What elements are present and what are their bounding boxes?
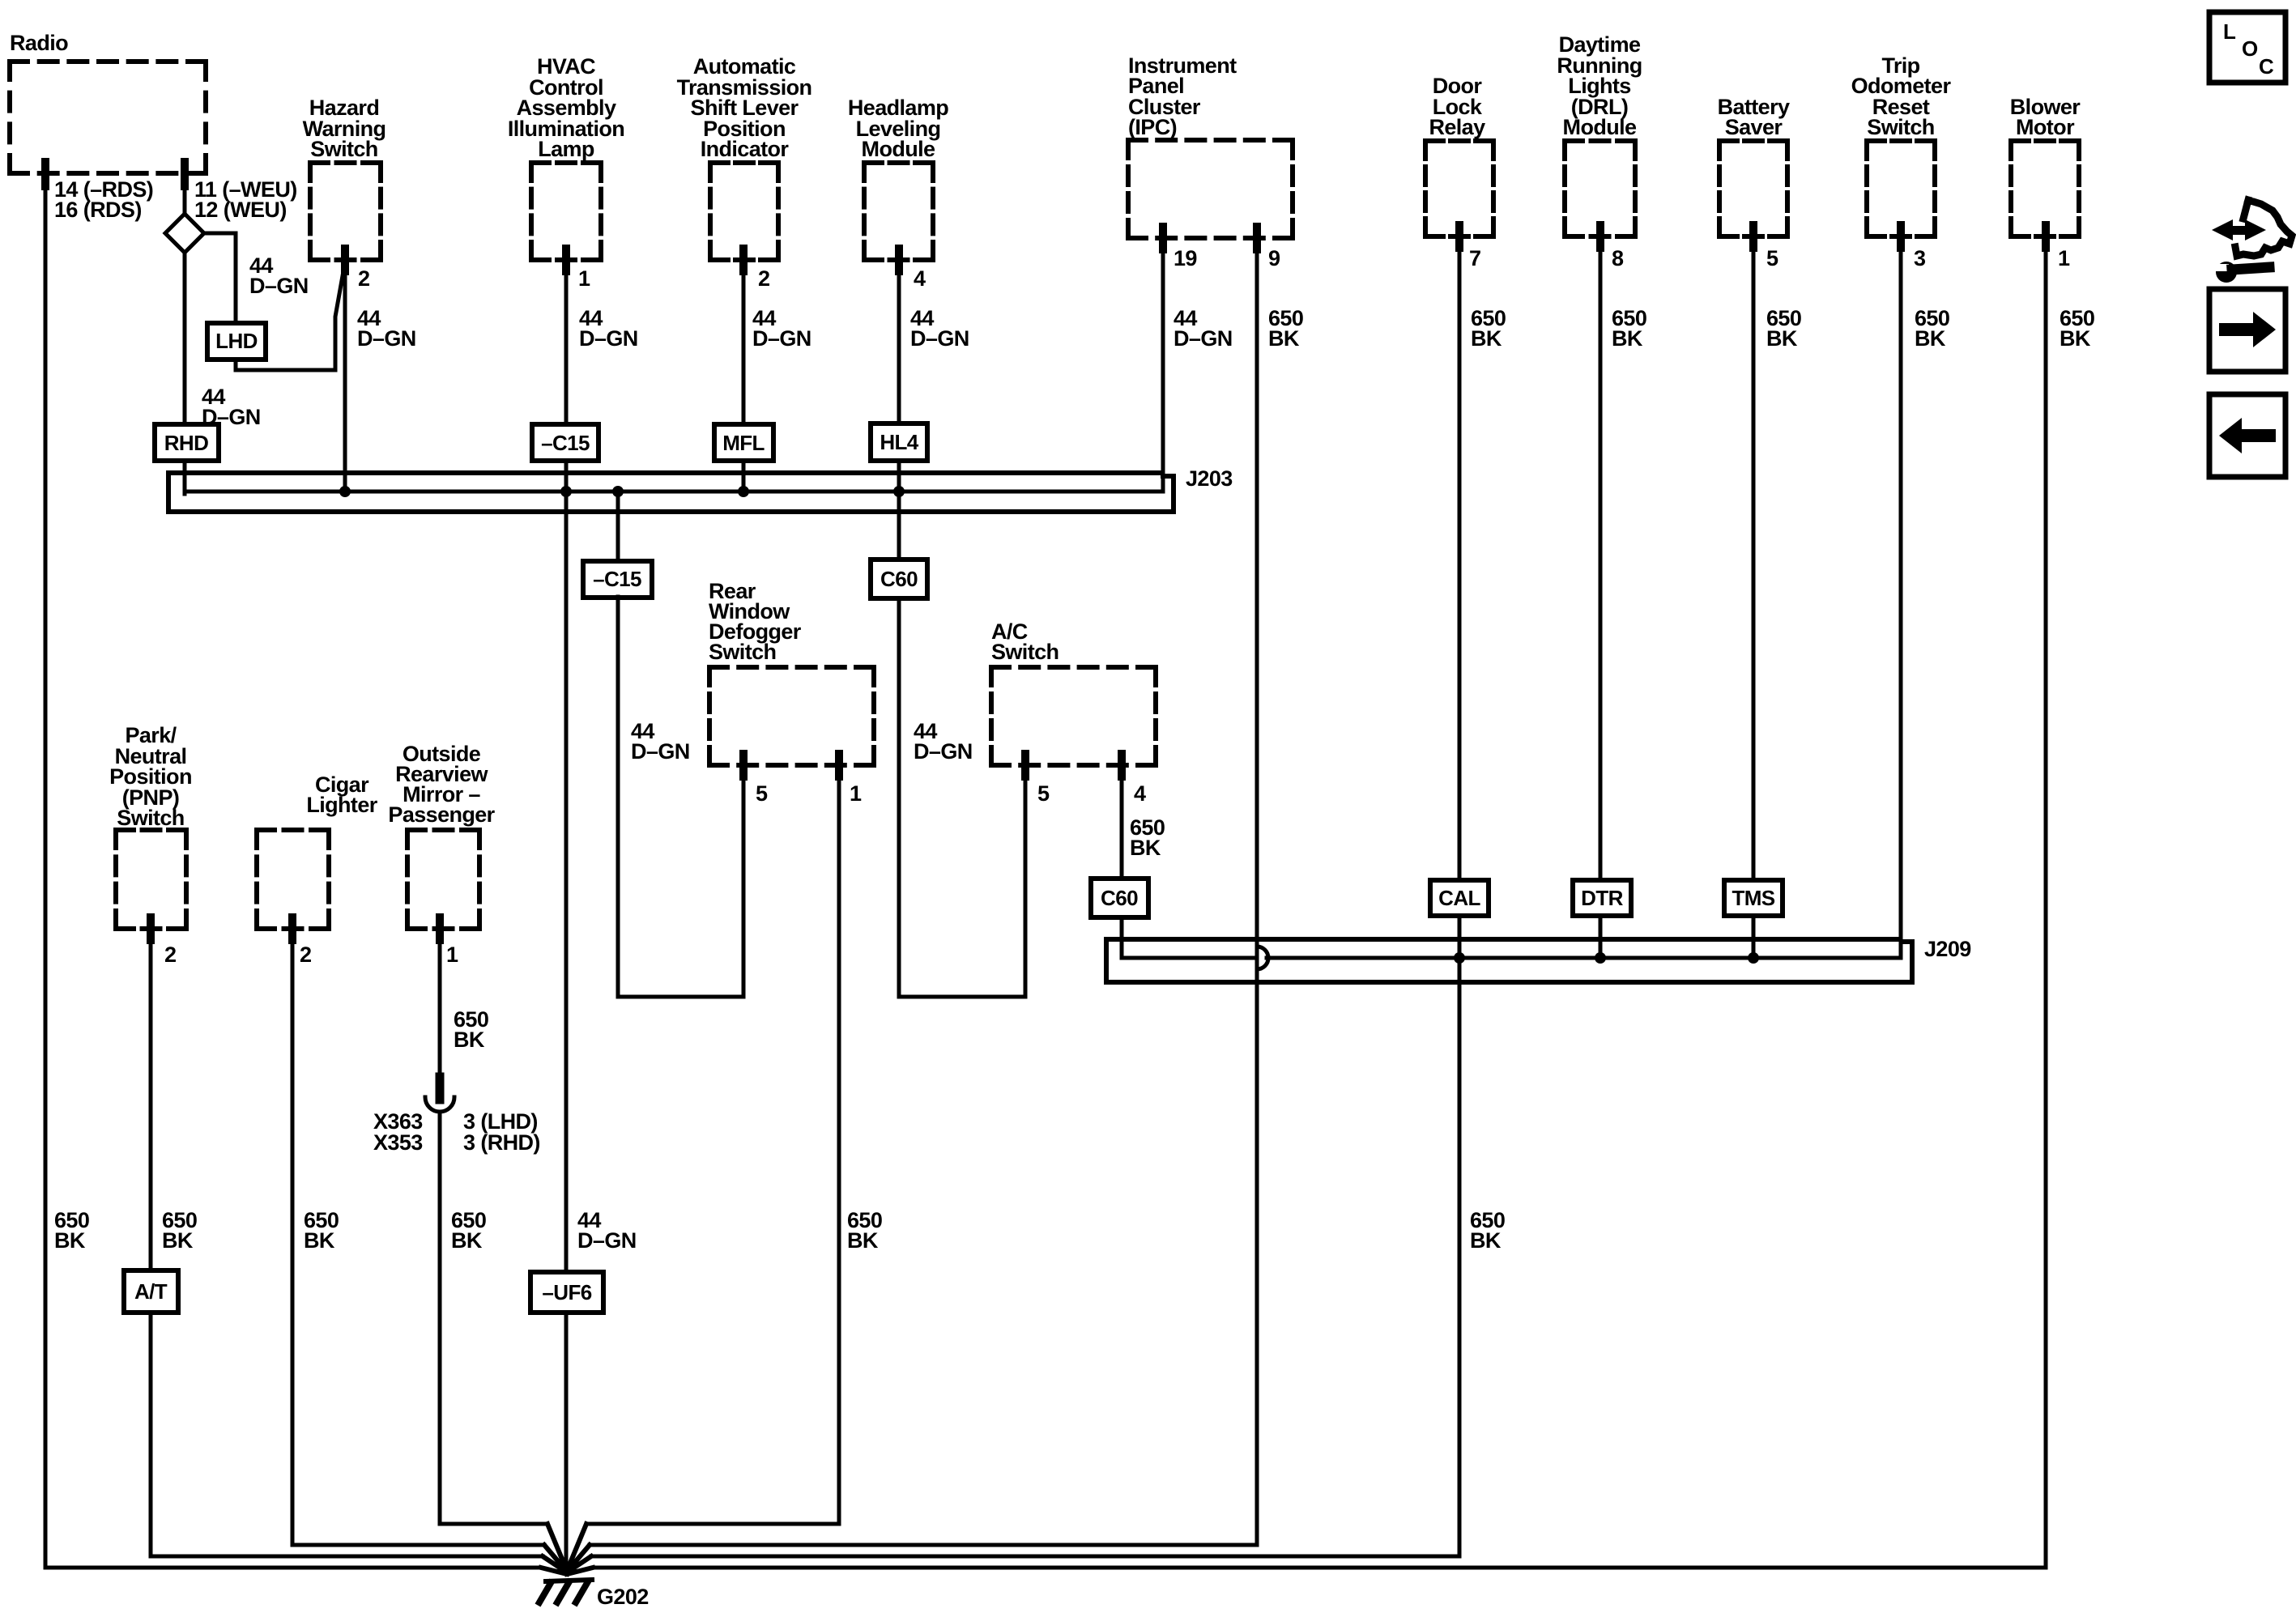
component Trip Odometer Reset Switch (dashed component box)	[1867, 141, 1935, 236]
label 650 BK IPC pin9 wire	[1268, 306, 1303, 351]
label 44 D-GN near diamond	[249, 253, 309, 298]
svg-text:BK: BK	[162, 1228, 194, 1253]
svg-text:BK: BK	[1766, 326, 1798, 351]
wire DRL pin 8 to DTR (650 BK)	[1599, 236, 1603, 880]
in-line connector C60 (C60 lower)	[1091, 879, 1148, 917]
wire headlamp pin 4 to HL4 (44 D-GN)	[897, 260, 901, 423]
svg-text:3 (RHD): 3 (RHD)	[463, 1130, 540, 1155]
mirror pin 1 pin stub	[436, 917, 444, 940]
label 44 D-GN HVAC wire	[579, 306, 638, 351]
shift indicator pin 2 pin stub	[739, 249, 748, 271]
component Radio box (dashed component box)	[10, 62, 206, 173]
wire IPC pin 19 to J203 right end (44 D-GN)	[1161, 238, 1165, 491]
svg-text:Relay: Relay	[1429, 115, 1485, 139]
label 650 BK trip odometer wire	[1915, 306, 1949, 351]
wire Hazard pin 2 to J203 (44 D-GN)	[343, 260, 347, 491]
svg-text:Lamp: Lamp	[538, 137, 594, 161]
svg-text:–UF6: –UF6	[542, 1280, 591, 1304]
Radio pin 11/12 pin stub	[181, 162, 189, 186]
DRL pin 8 pin stub	[1596, 225, 1604, 248]
label 44 D-GN IPC pin19 wire	[1174, 306, 1233, 351]
svg-text:C60: C60	[880, 567, 918, 591]
junction dot J203 HL4/C60	[893, 486, 905, 497]
splice J203 internal wire	[185, 490, 1163, 494]
HVAC pin 1 pin stub	[562, 249, 570, 271]
door lock relay pin 7 pin stub	[1455, 225, 1463, 248]
label label X363 pin 3	[463, 1109, 540, 1155]
svg-text:Switch: Switch	[709, 640, 776, 664]
IPC pin 19 pin stub	[1159, 227, 1167, 249]
component Outside Rearview Mirror (dashed component box)	[407, 830, 479, 929]
wire MFL to J203	[742, 461, 746, 491]
label Door Lock Relay	[1429, 74, 1485, 139]
svg-text:BK: BK	[451, 1228, 483, 1253]
svg-text:CAL: CAL	[1438, 886, 1480, 910]
label Trip Odometer Reset Switch	[1851, 53, 1952, 139]
wire defogger pin 1 650 BK down to ground run	[837, 765, 841, 1524]
wire PNP pin 2 650 BK to A/T connector	[149, 929, 153, 1270]
wire HL4 through J203 to C60	[897, 461, 901, 560]
svg-text:8: 8	[1612, 246, 1624, 270]
splice J203 bus outline	[168, 473, 1174, 512]
component Cigar Lighter (dashed component box)	[257, 830, 329, 929]
junction dot J209 DTR	[1595, 952, 1606, 964]
wire A/C pin 5 down	[1024, 765, 1028, 997]
label Automatic Transmission Shift Lever Position Indicator	[677, 54, 812, 161]
wire cigar lighter pin 2 650 BK to ground run	[291, 929, 295, 1545]
wire trip odometer pin 3 to J209 right end (650 BK)	[1899, 236, 1903, 958]
label 650 BK battery saver wire	[1766, 306, 1801, 351]
Radio pin 14 pin stub	[41, 162, 49, 186]
label HVAC Control Assembly Illumination Lamp	[508, 54, 624, 161]
splice J209 internal wire with hop over IPC-9 wire	[1122, 947, 1901, 969]
svg-text:BK: BK	[1612, 326, 1643, 351]
label Rear Window Defogger Switch	[709, 579, 802, 664]
svg-text:–C15: –C15	[593, 567, 641, 591]
label 650 BK blower wire	[2060, 306, 2094, 351]
label 650 BK door lock wire	[1471, 306, 1506, 351]
wire TMS to J209	[1752, 916, 1756, 958]
svg-text:1: 1	[446, 943, 458, 967]
svg-text:12 (WEU): 12 (WEU)	[194, 198, 287, 222]
ground symbol G202	[539, 1580, 592, 1602]
svg-text:5: 5	[756, 781, 768, 806]
svg-text:D–GN: D–GN	[910, 326, 969, 351]
svg-text:Lighter: Lighter	[306, 793, 377, 817]
svg-text:BK: BK	[1471, 326, 1502, 351]
wire DTR to J209	[1599, 916, 1603, 958]
splice diamond (RDS/WEU option split)	[165, 214, 204, 253]
in-line connector –C15 (-C15 upper)	[532, 424, 598, 461]
svg-text:C: C	[2259, 54, 2274, 79]
junction dot J203 -C15 lower	[612, 486, 624, 497]
cigar lighter pin 2 pin stub	[288, 917, 296, 940]
wire defogger pin 5 down	[742, 765, 746, 997]
svg-text:BK: BK	[1268, 326, 1300, 351]
svg-text:A/T: A/T	[134, 1279, 168, 1304]
svg-text:X353: X353	[373, 1130, 423, 1155]
wire Radio pin11 to splice diamond	[183, 173, 187, 215]
in-line connector –C15 (-C15 lower)	[583, 561, 652, 598]
svg-text:Switch: Switch	[1867, 115, 1934, 139]
svg-text:–C15: –C15	[541, 431, 590, 455]
in-line connector HL4 (HL4 connector)	[871, 423, 927, 461]
blower motor pin 1 pin stub	[2042, 225, 2050, 248]
wire C60 to A/C pin 5 (44 D-GN)	[899, 598, 1025, 997]
svg-text:DTR: DTR	[1581, 886, 1623, 910]
component Door Lock Relay (dashed component box)	[1425, 141, 1493, 236]
wire ground run right y1882	[586, 1522, 839, 1526]
label 44 D-GN hazard wire	[357, 306, 416, 351]
component Rear Window Defogger Switch (dashed component box)	[709, 667, 874, 765]
junction dot J209 CAL	[1454, 952, 1465, 964]
junction dot J209 TMS	[1748, 952, 1759, 964]
label Blower Motor	[2010, 95, 2081, 139]
wire -C15 through J203 down to -UF6	[564, 461, 569, 1272]
svg-text:BK: BK	[847, 1228, 879, 1253]
svg-text:D–GN: D–GN	[752, 326, 811, 351]
PNP pin 2 pin stub	[147, 917, 155, 940]
in-line connector A/T (A/T option)	[124, 1270, 178, 1313]
component Instrument Panel Cluster (dashed component box)	[1128, 140, 1293, 238]
svg-text:D–GN: D–GN	[579, 326, 638, 351]
component Blower Motor (dashed component box)	[2011, 141, 2079, 236]
wire A/T to ground run	[149, 1313, 153, 1556]
label label X363/X353	[373, 1109, 423, 1155]
label 650 BK radio-14 wire lower	[54, 1208, 89, 1253]
label 650 BK cigar wire	[304, 1208, 339, 1253]
svg-text:Saver: Saver	[1725, 115, 1783, 139]
svg-text:D–GN: D–GN	[914, 739, 973, 764]
wire ground run right y1936	[593, 1566, 2046, 1570]
svg-text:J209: J209	[1924, 937, 1971, 961]
label Headlamp Leveling Module	[848, 96, 948, 161]
svg-text:D–GN: D–GN	[249, 274, 309, 298]
trip odometer pin 3 pin stub	[1897, 225, 1905, 248]
junction dot J203 hazard	[339, 486, 351, 497]
svg-text:5: 5	[1766, 246, 1778, 270]
svg-text:J203: J203	[1186, 466, 1233, 491]
in-line connector C60 (C60 upper)	[871, 560, 927, 598]
svg-text:C60: C60	[1101, 886, 1138, 910]
A/C pin 4 pin stub	[1118, 754, 1126, 777]
wire battery saver pin 5 to TMS (650 BK)	[1752, 236, 1756, 880]
in-line connector MFL (MFL connector)	[714, 424, 773, 461]
svg-text:BK: BK	[454, 1028, 485, 1052]
A/C pin 5 pin stub	[1021, 754, 1029, 777]
label 44 D-GN headlamp wire	[910, 306, 969, 351]
component Hazard Warning Switch (dashed component box)	[310, 163, 381, 260]
wire ground run right y1908	[590, 1543, 1257, 1547]
wire blower motor pin 1 650 BK down to ground run	[2044, 236, 2048, 1568]
wire CAL through J209 650 BK to ground run	[1458, 916, 1462, 1556]
wire A/C pin 4 to C60 (650 BK)	[1120, 765, 1124, 879]
svg-text:D–GN: D–GN	[631, 739, 690, 764]
component HVAC Illumination Lamp (dashed component box)	[531, 163, 601, 260]
headlamp module pin 4 pin stub	[895, 249, 903, 271]
IPC pin 9 pin stub	[1253, 227, 1261, 249]
svg-text:1: 1	[578, 266, 590, 291]
svg-text:(IPC): (IPC)	[1128, 115, 1177, 139]
svg-text:BK: BK	[1470, 1228, 1502, 1253]
label 44 D-GN above RHD	[202, 385, 261, 429]
wire Radio pin14 650 BK down to ground run	[44, 173, 48, 1568]
svg-text:3: 3	[1914, 246, 1926, 270]
wire RHD to J203	[183, 461, 187, 494]
svg-text:4: 4	[914, 266, 926, 291]
label 650 BK mirror wire lower	[451, 1208, 486, 1253]
in-line connector X363/X353	[425, 1077, 454, 1112]
junction dot J203 HVAC/-C15	[560, 486, 572, 497]
svg-text:BK: BK	[1915, 326, 1946, 351]
label Park/Neutral Position (PNP) Switch	[109, 723, 192, 830]
svg-text:2: 2	[164, 943, 176, 967]
label 650 BK defogger-1 wire	[847, 1208, 882, 1253]
label Battery Saver	[1718, 95, 1790, 139]
battery saver pin 5 pin stub	[1749, 225, 1757, 248]
svg-text:Passenger: Passenger	[388, 802, 495, 827]
wire diamond to LHD connector	[204, 233, 236, 323]
svg-text:BK: BK	[1130, 836, 1161, 860]
label 44 D-GN A/C-5 wire	[914, 719, 973, 764]
svg-text:Radio: Radio	[10, 31, 68, 55]
svg-text:Switch: Switch	[117, 806, 184, 830]
svg-text:D–GN: D–GN	[357, 326, 416, 351]
svg-text:9: 9	[1268, 246, 1280, 270]
car diagnostic icon with double arrow and wrench	[2212, 200, 2292, 283]
component Battery Saver (dashed component box)	[1719, 141, 1787, 236]
wire X363 to ground run 650 BK	[438, 1112, 442, 1524]
label Hazard Warning Switch	[303, 96, 386, 161]
svg-text:Switch: Switch	[991, 640, 1059, 664]
label 650 BK CAL ground wire	[1470, 1208, 1505, 1253]
wire ground run left y1922	[151, 1555, 543, 1559]
in-line connector RHD (RHD option)	[155, 424, 219, 461]
label 650 BK A/C-4 wire	[1130, 815, 1165, 860]
Hazard pin 2 pin stub	[341, 249, 349, 271]
svg-text:1: 1	[2058, 246, 2070, 270]
svg-text:4: 4	[1134, 781, 1146, 806]
svg-text:Motor: Motor	[2016, 115, 2075, 139]
component Headlamp Leveling Module (dashed component box)	[864, 163, 933, 260]
component PNP Switch (dashed component box)	[116, 830, 186, 929]
legend box: arrow left (wiring continues)	[2209, 394, 2285, 477]
svg-text:1: 1	[850, 781, 862, 806]
component A/T Shift Lever Position Indicator (dashed component box)	[710, 163, 778, 260]
label Radio pin 11 (–WEU) / 12 (WEU)	[194, 177, 297, 222]
svg-text:D–GN: D–GN	[577, 1228, 637, 1253]
svg-text:BK: BK	[2060, 326, 2091, 351]
wire C60 lower to J209 left end	[1120, 920, 1124, 958]
svg-text:G202: G202	[597, 1585, 649, 1609]
wire ground run left y1908	[292, 1543, 544, 1547]
wire mirror pin 1 650 BK to X363 connector	[438, 929, 442, 1079]
svg-text:7: 7	[1469, 246, 1480, 270]
wire -UF6 to ground G202	[564, 1313, 569, 1571]
svg-text:2: 2	[758, 266, 769, 291]
label A/C Switch	[991, 619, 1059, 664]
defogger pin 1 pin stub	[835, 754, 843, 777]
svg-text:LHD: LHD	[215, 329, 258, 353]
svg-text:TMS: TMS	[1732, 886, 1774, 910]
in-line connector –UF6 (-UF6 connector)	[530, 1272, 603, 1313]
label Daytime Running Lights (DRL) Module	[1557, 32, 1642, 139]
label 650 BK PNP wire	[162, 1208, 197, 1253]
wire J203 to -C15 lower to defogger pin 5 (44 D-GN)	[618, 491, 743, 997]
wire IPC pin 9 650 BK down to ground run	[1255, 238, 1259, 1545]
splice J209 bus outline	[1106, 939, 1912, 982]
wire ground run right y1922	[591, 1555, 1459, 1559]
junction dot J203 MFL	[738, 486, 749, 497]
in-line connector LHD (LHD option)	[207, 323, 266, 360]
svg-text:19: 19	[1174, 246, 1197, 270]
legend box: arrow right (wiring continues)	[2209, 289, 2285, 372]
wire ground run left y1882	[440, 1522, 547, 1526]
wire diamond to RHD connector	[183, 253, 187, 424]
label Cigar Lighter	[306, 772, 377, 817]
svg-text:HL4: HL4	[880, 430, 918, 454]
svg-text:O: O	[2242, 36, 2258, 61]
svg-text:Module: Module	[862, 137, 935, 161]
label Outside Rearview Mirror - Passenger	[388, 742, 495, 827]
svg-text:L: L	[2223, 19, 2236, 44]
svg-text:2: 2	[300, 943, 311, 967]
label 44 D-GN -UF6 wire	[577, 1208, 637, 1253]
wire door lock relay pin 7 to CAL (650 BK)	[1458, 236, 1462, 880]
svg-text:RHD: RHD	[164, 431, 209, 455]
label Radio pin 14 (–RDS) / 16 (RDS)	[54, 177, 153, 222]
in-line connector CAL (CAL connector)	[1430, 880, 1489, 916]
svg-text:MFL: MFL	[722, 431, 765, 455]
in-line connector DTR (DTR connector)	[1573, 880, 1631, 916]
LOC legend box	[2209, 12, 2285, 83]
label 44 D-GN defogger-5 wire	[631, 719, 690, 764]
svg-text:16 (RDS): 16 (RDS)	[54, 198, 142, 222]
svg-text:5: 5	[1037, 781, 1050, 806]
svg-text:BK: BK	[54, 1228, 86, 1253]
svg-text:Indicator: Indicator	[701, 137, 790, 161]
label 650 BK DRL wire	[1612, 306, 1646, 351]
component A/C Switch (dashed component box)	[991, 667, 1156, 765]
ground fan rays into G202	[541, 1524, 593, 1574]
svg-text:BK: BK	[304, 1228, 335, 1253]
component DRL Module (dashed component box)	[1565, 141, 1635, 236]
label 44 D-GN shift indicator wire	[752, 306, 811, 351]
svg-text:Module: Module	[1563, 115, 1637, 139]
svg-text:2: 2	[358, 266, 369, 291]
wire ground run left y1936	[45, 1566, 541, 1570]
defogger pin 5 pin stub	[739, 754, 748, 777]
label 650 BK mirror wire upper	[454, 1007, 488, 1052]
wire shift indicator pin 2 to MFL (44 D-GN)	[742, 260, 746, 424]
wire HVAC pin 1 to -C15 (44 D-GN)	[564, 260, 569, 425]
svg-text:Switch: Switch	[310, 137, 377, 161]
svg-text:D–GN: D–GN	[1174, 326, 1233, 351]
wire LHD to Hazard pin 2 (44 D-GN)	[236, 262, 345, 370]
in-line connector TMS (TMS connector)	[1724, 880, 1783, 916]
label Instrument Panel Cluster (IPC)	[1128, 53, 1237, 139]
